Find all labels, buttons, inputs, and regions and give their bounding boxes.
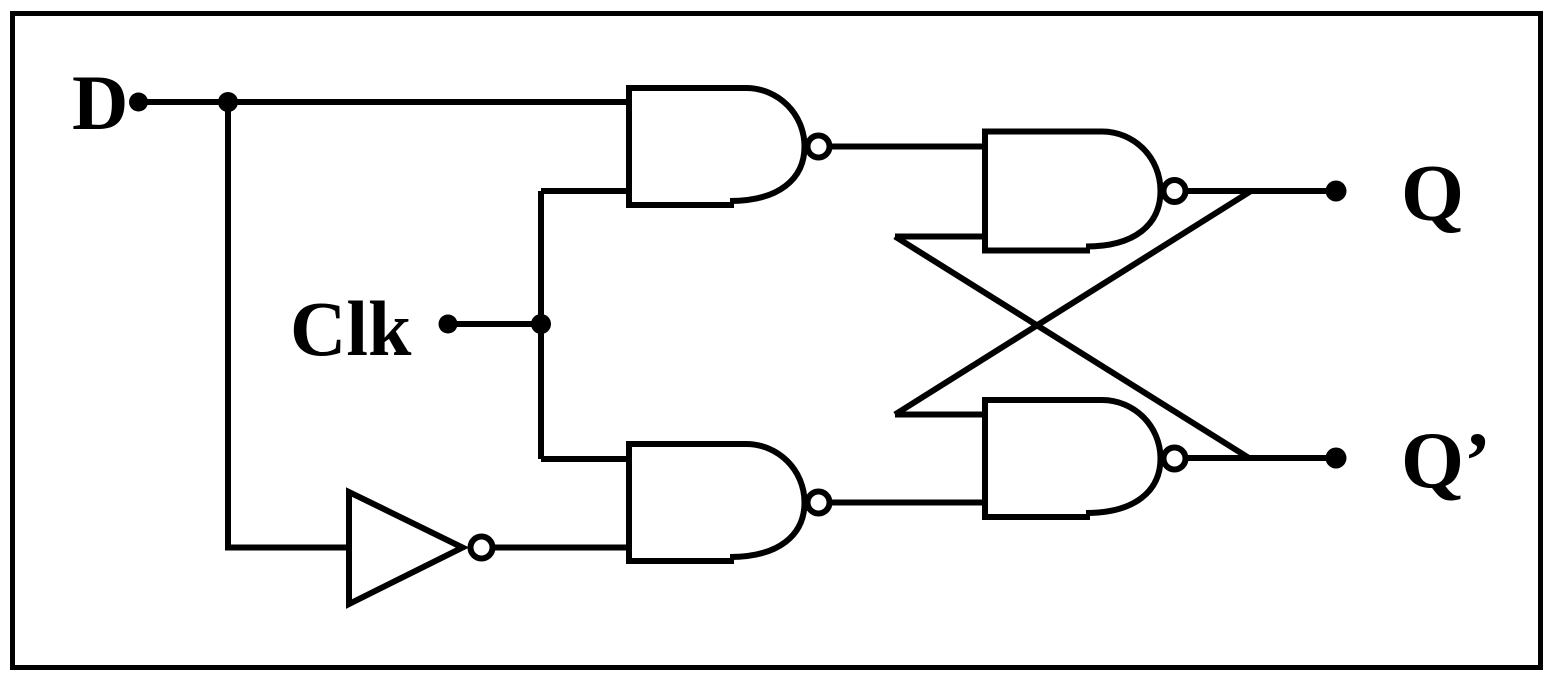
NAND gate U5 (bottom right) <box>985 400 1186 517</box>
svg-text:Q: Q <box>1401 148 1464 238</box>
wire D rail to NAND1 input 1 <box>228 99 632 105</box>
svg-text:Clk: Clk <box>290 285 412 372</box>
wire cross feedback Q to U5 input 1 <box>895 191 1251 415</box>
wire U5 input 1 stub <box>895 412 988 418</box>
terminal dot D <box>129 93 148 112</box>
wire inverter output to NAND2 input 2 <box>495 545 632 551</box>
wire Q' output <box>1188 455 1336 461</box>
wire cross feedback Q' to U4 input 2 <box>895 237 1249 459</box>
svg-text:Q’: Q’ <box>1401 416 1491 506</box>
wire Q output <box>1188 188 1336 194</box>
NAND gate U3 (bottom left) <box>629 444 830 561</box>
NAND gate U2 (top left) <box>629 88 830 205</box>
wire Clk to NAND2 input 1 <box>541 456 632 462</box>
svg-text:D: D <box>72 59 128 146</box>
wire U4 input 2 stub <box>895 234 988 240</box>
junction on Clk rail <box>531 314 551 334</box>
wire NAND2out: U2 output to U4 input 1 <box>832 144 988 150</box>
terminal dot Clk <box>439 315 458 334</box>
wire Clk terminal to junction <box>448 321 541 327</box>
terminal dot Q' <box>1326 448 1347 469</box>
junction on D rail <box>218 92 238 112</box>
wire Clk to NAND1 input 2 <box>541 188 632 194</box>
NAND gate U4 (top right) <box>985 132 1186 251</box>
wire Clk vertical bus <box>538 191 544 459</box>
inverter U1 <box>349 492 493 604</box>
wire D terminal to junction <box>139 99 229 105</box>
wire D vertical down to inverter <box>228 102 352 548</box>
terminal dot Q <box>1326 181 1347 202</box>
wire NAND3out: U3 output to U5 input 2 <box>832 500 988 506</box>
